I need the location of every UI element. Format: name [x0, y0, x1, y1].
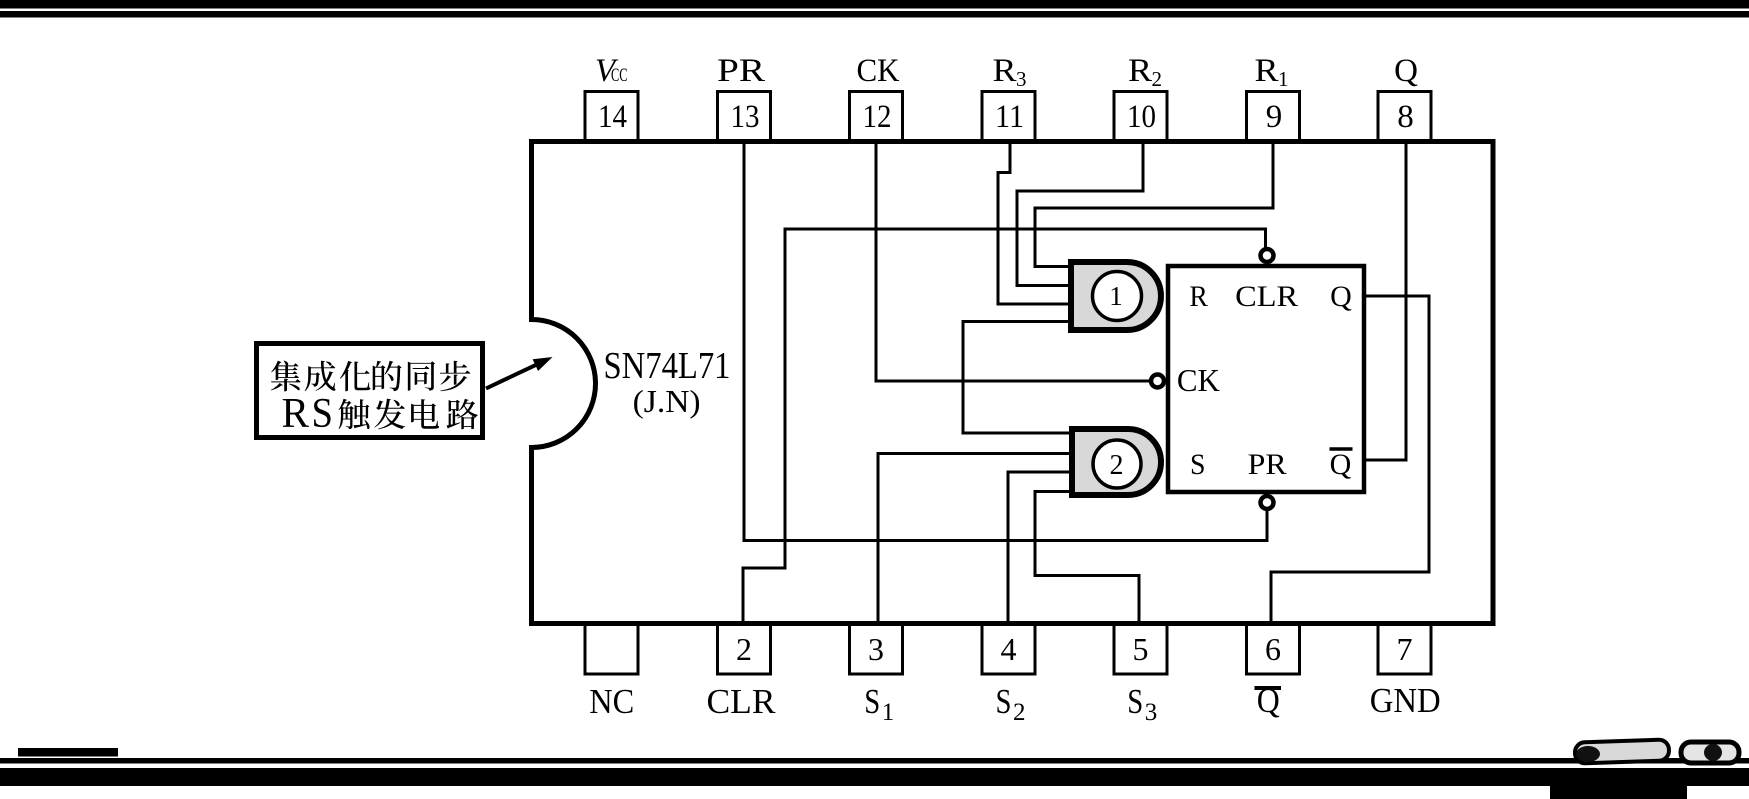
- PR input bubble (bottom): [1261, 496, 1274, 509]
- CLR input bubble (top): [1261, 249, 1274, 262]
- svg-text:6: 6: [1265, 631, 1281, 667]
- svg-text:CC: CC: [611, 65, 628, 86]
- svg-text:R: R: [1128, 53, 1152, 89]
- svg-text:R: R: [282, 391, 310, 437]
- svg-text:13: 13: [731, 99, 760, 135]
- svg-text:S: S: [864, 682, 880, 721]
- pin 10 box (top): [1114, 92, 1167, 142]
- wire Q output to pin 6: [1271, 296, 1429, 623]
- svg-text:GND: GND: [1370, 681, 1441, 720]
- wire S1: pin 3 to gate 2 input 2: [878, 454, 1069, 624]
- IC body SN74L71 outline with pin-1 notch: [532, 142, 1494, 624]
- scan artifact capsule right: [1681, 742, 1739, 763]
- svg-text:2: 2: [736, 631, 752, 667]
- svg-text:8: 8: [1397, 99, 1414, 135]
- svg-text:1: 1: [882, 699, 895, 726]
- svg-text:1: 1: [1109, 281, 1123, 311]
- svg-text:(J.N): (J.N): [633, 383, 701, 419]
- pin 11 box (top): [982, 92, 1035, 142]
- AND gate 2 (S inputs): [1072, 429, 1161, 495]
- svg-text:3: 3: [868, 631, 884, 667]
- wire R2: pin 10 to gate 1 input 2: [1017, 144, 1143, 286]
- pin 8 box (top): [1378, 92, 1431, 142]
- bottom-right black block: [1550, 785, 1687, 799]
- svg-text:10: 10: [1127, 99, 1156, 135]
- svg-text:14: 14: [598, 99, 627, 135]
- pin 6 box (bottom): [1247, 624, 1300, 675]
- svg-text:Q: Q: [1330, 280, 1352, 313]
- bottom border line (thin): [0, 758, 1749, 764]
- svg-text:2: 2: [1110, 450, 1124, 481]
- wire S3: pin 5 to gate 2 input 4: [1035, 492, 1139, 624]
- pin 13 box (top): [718, 92, 771, 142]
- svg-text:12: 12: [863, 99, 892, 135]
- pin 12 box (top): [850, 92, 903, 142]
- scan artifact capsule left: [1575, 739, 1670, 763]
- bottom-left small black mark: [18, 748, 118, 757]
- svg-text:Q: Q: [1330, 448, 1352, 481]
- svg-text:9: 9: [1266, 99, 1283, 135]
- annotation text line 1: [271, 361, 471, 392]
- svg-text:S: S: [312, 391, 334, 437]
- wire CLR: pin 2 to CLR bubble: [743, 229, 1266, 623]
- pin 3 box (bottom): [850, 624, 903, 675]
- svg-text:CK: CK: [1177, 362, 1220, 398]
- annotation callout box: [257, 344, 483, 438]
- svg-text:7: 7: [1397, 631, 1413, 667]
- pin 4 box (bottom): [982, 624, 1035, 675]
- svg-text:R: R: [1189, 280, 1208, 313]
- annotation text line 2: [282, 391, 478, 437]
- svg-text:CLR: CLR: [1235, 280, 1298, 313]
- svg-text:S: S: [996, 682, 1012, 721]
- svg-text:CLR: CLR: [707, 682, 777, 721]
- wire S2: pin 4 to gate 2 input 3: [1008, 472, 1069, 623]
- svg-text:NC: NC: [589, 682, 634, 721]
- CK input bubble (left): [1151, 375, 1164, 388]
- svg-text:R: R: [993, 53, 1017, 89]
- AND gate 1 (R inputs): [1071, 262, 1161, 330]
- wire R3: pin 11 to gate 1 input 3: [998, 144, 1068, 304]
- wire PR: pin 13 to PR bubble: [744, 144, 1267, 541]
- svg-text:1: 1: [1278, 67, 1289, 91]
- svg-text:PR: PR: [1248, 448, 1287, 481]
- svg-text:4: 4: [1001, 631, 1017, 667]
- svg-text:2: 2: [1152, 67, 1163, 91]
- svg-text:SN74L71: SN74L71: [604, 345, 731, 387]
- annotation arrow: [486, 363, 539, 388]
- pin 2 box (bottom): [718, 624, 771, 675]
- svg-text:S: S: [1127, 682, 1143, 721]
- wire Qbar output to pin 8: [1366, 144, 1406, 460]
- svg-text:2: 2: [1013, 699, 1026, 726]
- svg-text:5: 5: [1133, 631, 1149, 667]
- pin 7 box (bottom): [1378, 624, 1431, 675]
- flip-flop U1 box: [1168, 266, 1364, 492]
- wire R1: pin 9 to gate 1 input 1: [1035, 144, 1273, 267]
- svg-text:3: 3: [1145, 699, 1158, 726]
- wire CK branch: gate 1 input 4 to gate 2 input 1: [963, 322, 1069, 434]
- svg-text:R: R: [1255, 53, 1279, 89]
- top border bar (thick): [0, 0, 1749, 9]
- svg-text:11: 11: [995, 99, 1024, 135]
- svg-text:3: 3: [1016, 67, 1027, 91]
- bottom border bar (thick): [0, 768, 1749, 786]
- pin 1 box (bottom): [585, 624, 638, 675]
- svg-text:Q: Q: [1394, 53, 1418, 89]
- pin 14 box (top): [585, 92, 638, 142]
- top border bar (thin): [0, 11, 1749, 18]
- pin 9 box (top): [1247, 92, 1300, 142]
- svg-text:PR: PR: [717, 53, 765, 89]
- pin 5 box (bottom): [1114, 624, 1167, 675]
- wire CK: pin 12 to CK bubble: [876, 144, 1150, 381]
- svg-text:CK: CK: [857, 53, 900, 89]
- svg-text:S: S: [1190, 448, 1206, 481]
